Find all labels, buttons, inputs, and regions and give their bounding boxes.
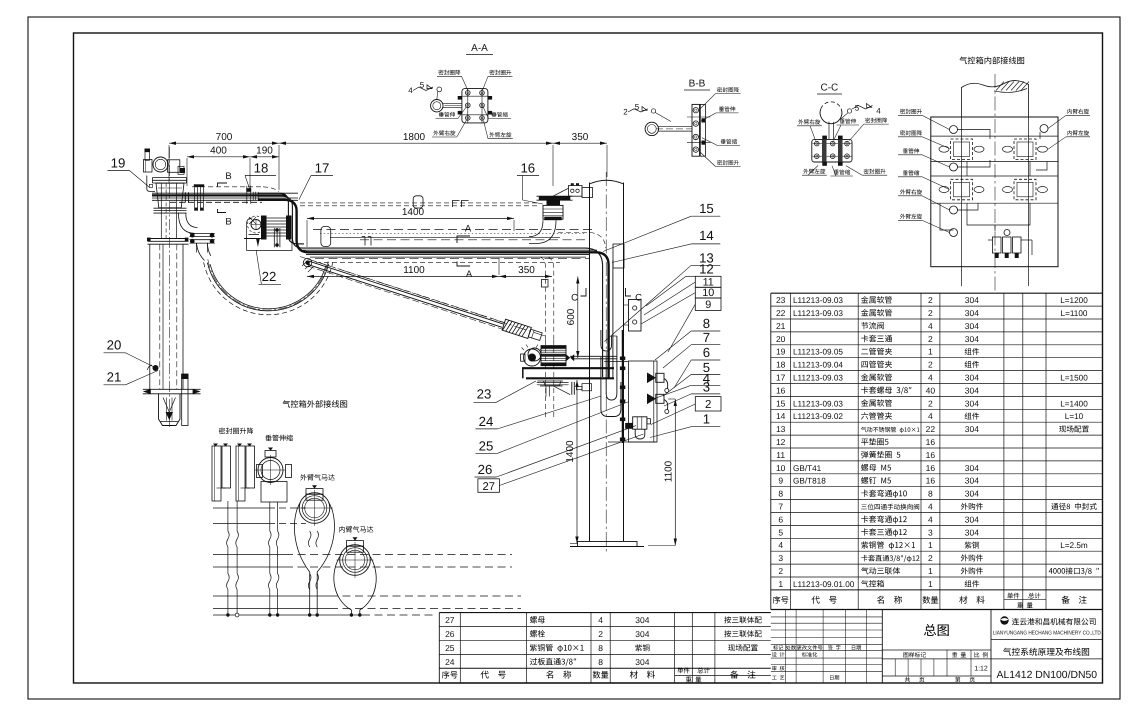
svg-text:L=1400: L=1400 bbox=[1060, 399, 1088, 408]
svg-text:20: 20 bbox=[107, 338, 122, 353]
svg-text:700: 700 bbox=[216, 132, 233, 143]
bell nozzle bbox=[159, 394, 181, 426]
svg-text:27: 27 bbox=[482, 481, 494, 493]
svg-text:L11213-09.04: L11213-09.04 bbox=[793, 361, 843, 370]
svg-text:1: 1 bbox=[928, 566, 933, 576]
control box mounting rails bbox=[931, 135, 1058, 137]
control box column hatch bbox=[996, 82, 1004, 91]
svg-text:B-B: B-B bbox=[689, 79, 706, 90]
column centerline bbox=[605, 172, 607, 553]
pivot hatch marks bbox=[302, 261, 313, 272]
hidden pipes upper arm run bbox=[300, 202, 540, 204]
swing arm pivot bbox=[305, 260, 309, 264]
svg-text:L11213-09.03: L11213-09.03 bbox=[793, 399, 843, 408]
title block bbox=[881, 610, 883, 684]
svg-text:3: 3 bbox=[778, 553, 783, 563]
hidden pipe dashed x589 bbox=[589, 262, 591, 430]
svg-text:304: 304 bbox=[965, 398, 979, 408]
valve 16 elbow to arm pipe bbox=[529, 220, 543, 236]
control box column pipe with break bbox=[961, 87, 963, 117]
solenoid valve blocks bbox=[951, 139, 973, 160]
svg-text:14: 14 bbox=[776, 411, 786, 421]
control box centerline bbox=[994, 74, 996, 292]
manifold main vertical pipe with couplings bbox=[622, 330, 624, 443]
riser pipes lower bbox=[149, 244, 151, 389]
svg-text:304: 304 bbox=[965, 334, 979, 344]
company name bbox=[1012, 618, 1019, 625]
dimension line 1100/350 bbox=[307, 275, 552, 277]
svg-text:4: 4 bbox=[928, 321, 933, 331]
manifold frame box bbox=[629, 361, 658, 442]
swing arm diagonal pipes bbox=[309, 261, 504, 324]
BOM table (items 1-23) bbox=[771, 292, 1103, 294]
svg-text:5: 5 bbox=[778, 527, 783, 537]
svg-text:304: 304 bbox=[965, 385, 979, 395]
svg-text:15: 15 bbox=[699, 201, 714, 216]
svg-text:16: 16 bbox=[926, 450, 936, 460]
svg-text:6: 6 bbox=[778, 514, 783, 524]
section C-C labels bbox=[798, 119, 803, 124]
svg-text:4: 4 bbox=[928, 411, 933, 421]
svg-text:400: 400 bbox=[210, 146, 227, 157]
supp BOM header row bbox=[442, 671, 450, 679]
svg-text:19: 19 bbox=[776, 347, 786, 357]
section C-C weld symbol bbox=[847, 109, 851, 113]
svg-text:24: 24 bbox=[479, 414, 494, 429]
svg-text:GB/T41: GB/T41 bbox=[793, 464, 822, 473]
control box wiring bbox=[958, 130, 991, 140]
svg-text:304: 304 bbox=[965, 321, 979, 331]
svg-text:1: 1 bbox=[928, 579, 933, 589]
lower arm pipe bundle bbox=[303, 249, 597, 251]
cylinder unit seal ring lift bbox=[219, 428, 225, 435]
pipe fitting flange on bundle bbox=[194, 184, 204, 187]
dimension line 400/190 bbox=[187, 156, 279, 158]
svg-text:4: 4 bbox=[778, 540, 783, 550]
dimension line 1400 bbox=[307, 217, 514, 219]
column pipe body bbox=[589, 183, 591, 542]
control box column sides inside bbox=[961, 117, 963, 267]
svg-text:2: 2 bbox=[928, 295, 933, 305]
gear actuator pipe telescope bbox=[265, 435, 271, 441]
svg-text:4: 4 bbox=[408, 86, 413, 95]
svg-text:304: 304 bbox=[965, 463, 979, 473]
control box diagram title bbox=[959, 57, 967, 65]
svg-text:304: 304 bbox=[965, 527, 979, 537]
svg-text:7: 7 bbox=[778, 502, 783, 512]
svg-text:9: 9 bbox=[778, 476, 783, 486]
svg-text:L11213-09.03: L11213-09.03 bbox=[793, 296, 843, 305]
svg-text:8: 8 bbox=[598, 657, 603, 667]
svg-text:2: 2 bbox=[928, 334, 933, 344]
bus lines horizontal bbox=[213, 507, 268, 509]
svg-text:2: 2 bbox=[928, 360, 933, 370]
mid thick rails bbox=[522, 367, 614, 369]
title block signature grid bbox=[771, 616, 883, 618]
svg-text:11: 11 bbox=[776, 450, 785, 460]
hose swing arc solid inner bbox=[210, 264, 326, 309]
mount plate on column right bbox=[629, 300, 642, 332]
BOM header row bbox=[773, 596, 781, 604]
svg-text:14: 14 bbox=[699, 228, 714, 243]
coupling left of filter bbox=[625, 423, 633, 429]
section A-A labels bbox=[438, 70, 443, 75]
side pipe right of nozzle bbox=[182, 374, 188, 426]
control box left labels bbox=[900, 109, 905, 114]
hose swing arc dashed outer bbox=[204, 262, 333, 314]
svg-text:A: A bbox=[465, 224, 472, 235]
svg-text:1100: 1100 bbox=[403, 265, 425, 276]
callout 10 boxed bbox=[695, 287, 721, 298]
svg-text:1:12: 1:12 bbox=[974, 666, 988, 673]
svg-text:C-C: C-C bbox=[821, 83, 839, 94]
svg-text:1: 1 bbox=[778, 579, 783, 589]
manifold serpentine loops bbox=[601, 330, 612, 351]
section B-B pipe circle bbox=[645, 122, 658, 135]
svg-text:6: 6 bbox=[703, 345, 710, 360]
svg-text:26: 26 bbox=[445, 629, 455, 639]
svg-text:4: 4 bbox=[928, 514, 933, 524]
svg-text:4: 4 bbox=[928, 373, 933, 383]
valve 16 support bracket to column bbox=[553, 188, 569, 196]
dimension extension lines top bbox=[168, 145, 170, 183]
valve 19 top stem bbox=[145, 152, 150, 161]
svg-text:18: 18 bbox=[776, 360, 786, 370]
hose stub from flange to arc bbox=[197, 243, 205, 260]
svg-text:4: 4 bbox=[876, 107, 881, 116]
valve 16 top flange bar bbox=[539, 196, 571, 200]
hidden pipe dashed above bundle bbox=[192, 186, 263, 188]
svg-text:16: 16 bbox=[926, 437, 936, 447]
filter regulator item 2 bbox=[633, 417, 647, 429]
svg-text:13: 13 bbox=[776, 424, 786, 434]
valve 16 stem dark bands bbox=[547, 200, 561, 205]
thick pipes elbow down to lower arm bbox=[258, 193, 304, 244]
svg-text:40: 40 bbox=[926, 385, 936, 395]
svg-text:304: 304 bbox=[965, 295, 979, 305]
svg-text:8: 8 bbox=[598, 643, 603, 653]
supplementary BOM table (items 24-27) bbox=[439, 612, 771, 614]
svg-text:22: 22 bbox=[776, 308, 786, 318]
section C-C pipe circle bbox=[820, 109, 842, 124]
terminal circles left bbox=[950, 126, 958, 134]
valve 19 bell skirt bbox=[156, 183, 184, 208]
callout 2 boxed bbox=[695, 397, 721, 411]
support bracket top left bbox=[147, 176, 155, 192]
svg-text:21: 21 bbox=[776, 321, 786, 331]
valve 19 flange plate bbox=[153, 177, 187, 179]
bottom bus line with junctions bbox=[213, 614, 362, 616]
svg-text:L11213-09.01.00: L11213-09.01.00 bbox=[793, 580, 855, 589]
svg-text:21: 21 bbox=[107, 370, 122, 385]
svg-text:1800: 1800 bbox=[403, 132, 426, 143]
bracket on column right edge bbox=[613, 244, 624, 268]
section A-A side tabs bbox=[458, 96, 462, 100]
svg-text:2: 2 bbox=[928, 553, 933, 563]
svg-text:8: 8 bbox=[778, 489, 783, 499]
clamp tab on upper hidden run bbox=[413, 196, 423, 208]
svg-text:3: 3 bbox=[928, 527, 933, 537]
flange pair on bundle left bbox=[184, 192, 186, 202]
svg-text:AL1412 DN100/DN50: AL1412 DN100/DN50 bbox=[997, 670, 1098, 681]
svg-text:1: 1 bbox=[703, 412, 710, 427]
svg-text:190: 190 bbox=[256, 146, 273, 157]
svg-text:304: 304 bbox=[965, 476, 979, 486]
drawing title bbox=[1003, 648, 1011, 656]
svg-text:C: C bbox=[571, 293, 578, 304]
svg-text:2: 2 bbox=[778, 566, 783, 576]
vertical flange pair on arm at x276 bbox=[273, 228, 275, 247]
svg-text:9: 9 bbox=[705, 299, 711, 311]
svg-text:2: 2 bbox=[928, 308, 933, 318]
svg-text:L11213-09.05: L11213-09.05 bbox=[793, 348, 843, 357]
callout 9 boxed bbox=[695, 298, 721, 310]
callout 27 bbox=[478, 479, 500, 493]
valve 19 bonnet bbox=[168, 160, 180, 173]
svg-text:L11213-09.03: L11213-09.03 bbox=[793, 309, 843, 318]
svg-text:25: 25 bbox=[479, 438, 494, 453]
svg-text:L11213-09.03: L11213-09.03 bbox=[793, 374, 843, 383]
vertical dimension 1400 bbox=[576, 380, 578, 544]
riser pipes below valve 19 bbox=[160, 183, 162, 238]
cross screws marks 22 bbox=[249, 217, 256, 224]
svg-text:350: 350 bbox=[572, 132, 589, 143]
section C-C block bbox=[812, 139, 852, 162]
hose swing arc solid outer bbox=[207, 263, 328, 311]
filter assembly in control box bbox=[1004, 230, 1010, 236]
vertical dimension 600 bbox=[577, 277, 579, 359]
hidden pipes elbow down right of arm bbox=[540, 257, 546, 340]
swing coupling gear circle bbox=[524, 349, 541, 366]
svg-text:25: 25 bbox=[445, 643, 455, 653]
valve 19 actuator circle bbox=[153, 157, 168, 172]
actuator item 22 body bbox=[251, 220, 261, 230]
svg-text:20: 20 bbox=[776, 334, 786, 344]
mid rod and clevis bbox=[537, 382, 569, 384]
pipe clamp right of 18 bbox=[252, 192, 254, 201]
svg-text:1: 1 bbox=[928, 347, 933, 357]
svg-text:304: 304 bbox=[965, 373, 979, 383]
svg-text:12: 12 bbox=[776, 437, 786, 447]
svg-text:3: 3 bbox=[703, 380, 710, 395]
hidden pipe from valve to column bbox=[558, 232, 590, 234]
valve 19 left body bbox=[144, 160, 153, 173]
cross bar with arrows bbox=[143, 388, 201, 390]
elbow pipe from risers to hose flange bbox=[179, 214, 196, 234]
svg-text:4: 4 bbox=[598, 615, 603, 625]
mid connection lines to manifold bbox=[570, 355, 617, 357]
svg-text:12: 12 bbox=[699, 261, 714, 276]
svg-text:8: 8 bbox=[703, 316, 710, 331]
inner arm air motor bbox=[339, 526, 345, 532]
fitting item 20/21 target bbox=[153, 365, 159, 371]
callout 11 boxed bbox=[695, 276, 721, 287]
svg-text:304: 304 bbox=[635, 615, 649, 625]
wire pairs with break symbols bbox=[227, 501, 229, 531]
svg-text:18: 18 bbox=[254, 161, 269, 176]
column base plate bbox=[578, 542, 638, 547]
control box right labels bbox=[1067, 109, 1071, 114]
actuator 22 frame bracket bbox=[247, 218, 253, 251]
svg-text:304: 304 bbox=[965, 308, 979, 318]
svg-text:2: 2 bbox=[598, 629, 603, 639]
svg-text:19: 19 bbox=[111, 156, 126, 171]
svg-text:304: 304 bbox=[635, 629, 649, 639]
section A-A block bbox=[462, 89, 488, 123]
svg-text:4: 4 bbox=[928, 502, 933, 512]
svg-text:8: 8 bbox=[928, 489, 933, 499]
valve 16 bell body bbox=[543, 205, 563, 219]
svg-text:10: 10 bbox=[702, 287, 714, 299]
svg-text:23: 23 bbox=[477, 387, 492, 402]
svg-text:1400: 1400 bbox=[402, 207, 425, 218]
svg-text:27: 27 bbox=[445, 615, 455, 625]
title block middle: drawing name cell bbox=[882, 649, 991, 651]
actuator 22 mount bar bbox=[249, 234, 260, 236]
terminal circle right bbox=[1040, 125, 1048, 133]
svg-text:304: 304 bbox=[965, 514, 979, 524]
svg-text:2: 2 bbox=[705, 399, 711, 411]
company logo bbox=[1000, 616, 1008, 624]
svg-text:B: B bbox=[225, 217, 231, 228]
control box outline bbox=[931, 117, 1058, 267]
svg-text:304: 304 bbox=[965, 424, 979, 434]
valve item 7 lower with lever bbox=[647, 394, 656, 405]
svg-text:16: 16 bbox=[926, 476, 936, 486]
svg-text:17: 17 bbox=[315, 161, 330, 176]
mid flange skirt bbox=[537, 380, 563, 382]
svg-text:L=10: L=10 bbox=[1065, 412, 1084, 421]
hose flange horizontal bbox=[190, 233, 215, 235]
swing arm hatched actuator bbox=[502, 319, 543, 342]
svg-text:LIANYUNGANG HECHANG MACHINERY: LIANYUNGANG HECHANG MACHINERY CO.,LTD bbox=[993, 631, 1101, 637]
svg-text:16: 16 bbox=[776, 385, 786, 395]
outer arm air motor bbox=[300, 474, 307, 480]
riser flange mid bbox=[148, 238, 189, 240]
svg-text:5: 5 bbox=[855, 104, 860, 113]
swing arm end coupling circle bbox=[528, 348, 541, 361]
thick vertical pipe side lines bbox=[612, 260, 614, 378]
svg-text:23: 23 bbox=[776, 295, 786, 305]
svg-text:L=1100: L=1100 bbox=[1061, 309, 1088, 318]
svg-text:26: 26 bbox=[478, 462, 493, 477]
svg-text:350: 350 bbox=[518, 265, 535, 276]
svg-text:10: 10 bbox=[776, 463, 786, 473]
svg-text:22: 22 bbox=[262, 269, 277, 284]
valve item 7 upper with lever bbox=[647, 373, 656, 384]
mid actuator ribbed body bbox=[541, 346, 566, 366]
hose swing arc centerline bbox=[208, 259, 329, 310]
svg-text:2: 2 bbox=[623, 108, 628, 117]
clamp ticks lower arm bbox=[364, 237, 366, 246]
svg-text:16: 16 bbox=[926, 463, 936, 473]
svg-text:L=1200: L=1200 bbox=[1060, 296, 1088, 305]
svg-text:24: 24 bbox=[445, 657, 455, 667]
svg-text:L=1500: L=1500 bbox=[1060, 374, 1088, 383]
svg-text:GB/T818: GB/T818 bbox=[793, 477, 826, 486]
svg-text:304: 304 bbox=[635, 657, 649, 667]
svg-text:L11213-09.02: L11213-09.02 bbox=[793, 412, 843, 421]
svg-text:15: 15 bbox=[776, 398, 786, 408]
section C-C top/bottom nubs bbox=[822, 136, 827, 140]
svg-text:L=2.5m: L=2.5m bbox=[1060, 541, 1088, 550]
external diagram title bbox=[282, 400, 290, 408]
section C-C stem bbox=[828, 122, 830, 140]
svg-text:16: 16 bbox=[520, 161, 535, 176]
section B-B plates bbox=[692, 104, 700, 156]
vertical dimension 1100 bbox=[674, 399, 676, 546]
svg-text:1: 1 bbox=[928, 540, 933, 550]
svg-text:17: 17 bbox=[776, 373, 786, 383]
svg-text:2: 2 bbox=[928, 398, 933, 408]
section A-A pipe circle bbox=[431, 100, 443, 112]
riser flange upper bbox=[154, 207, 187, 209]
svg-text:7: 7 bbox=[703, 330, 710, 345]
clamp on dashed riser bbox=[542, 280, 549, 288]
section B-B labels bbox=[717, 87, 722, 92]
clamp tab on lower arm bbox=[321, 227, 331, 247]
svg-text:600: 600 bbox=[566, 308, 577, 325]
manifold bottom rail bbox=[608, 441, 657, 443]
main pipe bundle upper arm bbox=[152, 192, 298, 194]
svg-text:A-A: A-A bbox=[471, 43, 488, 54]
mid actuator outlet bowtie bbox=[566, 354, 570, 361]
dimension line 700/1800/350 top bbox=[169, 142, 607, 144]
pipe clamp item 18 bbox=[246, 188, 251, 192]
section B-B bolt circles bbox=[693, 108, 698, 113]
svg-text:B: B bbox=[225, 171, 231, 182]
svg-text:1100: 1100 bbox=[664, 460, 675, 482]
svg-text:A: A bbox=[466, 269, 473, 280]
svg-text:304: 304 bbox=[965, 489, 979, 499]
svg-text:22: 22 bbox=[926, 424, 936, 434]
